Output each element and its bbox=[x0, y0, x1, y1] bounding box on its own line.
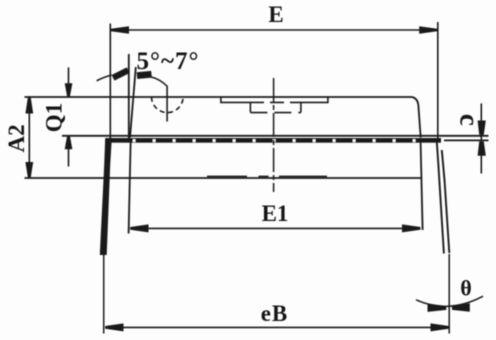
E left extension line bbox=[109, 24, 111, 140]
dimension E left arrow bbox=[111, 26, 129, 34]
body left slant edge (draft angle line) bbox=[130, 67, 136, 138]
eB right extension line bbox=[448, 254, 450, 334]
bottom hidden dashes bbox=[207, 175, 327, 177]
theta arrow right bbox=[452, 303, 470, 312]
theta arrow left bbox=[428, 303, 447, 312]
parting line thin bbox=[62, 135, 489, 137]
index notch dashed semicircle bbox=[152, 97, 184, 113]
angle leader curve bbox=[150, 77, 167, 87]
dimension c upper arrow bbox=[478, 121, 486, 135]
vertical centerline dash-dot bbox=[273, 78, 275, 192]
dimension A2 line bbox=[28, 98, 30, 178]
vertical angle reference line bbox=[128, 54, 130, 138]
tray middle dashed bbox=[250, 101, 301, 103]
dimension c lower arrow bbox=[478, 142, 486, 156]
body lower-right edge / E1 right extension bbox=[421, 143, 423, 230]
dimension Q1 lower line bbox=[68, 149, 70, 167]
eB left extension line bbox=[103, 255, 105, 334]
angle arc left tail bbox=[97, 75, 112, 81]
svg-text:θ: θ bbox=[460, 276, 471, 301]
svg-text:5°~7°: 5°~7° bbox=[137, 48, 200, 75]
recess box right vertical bbox=[300, 102, 302, 112]
E right extension line bbox=[437, 22, 439, 138]
dimension c line bbox=[480, 103, 482, 173]
recess box left vertical bbox=[249, 102, 251, 112]
svg-text:Q1: Q1 bbox=[42, 103, 67, 132]
notch centerline bbox=[166, 86, 168, 122]
right lead inner edge bbox=[437, 139, 444, 254]
body top-right corner bbox=[412, 97, 418, 105]
dimension E1 line bbox=[130, 227, 420, 229]
recess box bottom dashed bbox=[250, 112, 301, 114]
dimension A2 top arrow bbox=[25, 97, 33, 113]
dimension Q1 lower arrow bbox=[65, 136, 73, 149]
dimension E right arrow bbox=[419, 26, 437, 34]
c lower extension line bbox=[444, 139, 489, 141]
left lead bbox=[100, 138, 112, 255]
dimension E1 left arrow bbox=[130, 224, 148, 232]
svg-text:E: E bbox=[268, 2, 283, 27]
top tray step left bbox=[221, 97, 250, 102]
svg-text:A2: A2 bbox=[4, 124, 29, 152]
dimension eB left arrow bbox=[105, 323, 123, 331]
svg-text:eB: eB bbox=[261, 301, 289, 326]
theta angle arc bbox=[416, 296, 483, 306]
right lead outer edge bbox=[442, 150, 450, 253]
body lower-left edge / E1 left extension bbox=[129, 143, 131, 234]
top tray step right bbox=[301, 97, 328, 102]
dimension Q1 upper line bbox=[68, 67, 70, 84]
dimension eB line bbox=[105, 326, 449, 328]
svg-text:E1: E1 bbox=[262, 201, 289, 226]
dimension E line bbox=[111, 29, 438, 31]
dimension E1 right arrow bbox=[402, 224, 420, 232]
svg-text:c: c bbox=[455, 114, 485, 126]
angle arrow A bbox=[113, 70, 128, 78]
dimension Q1 upper arrow bbox=[65, 83, 73, 96]
package body top line bbox=[25, 96, 413, 98]
seating plane thick band bbox=[108, 138, 441, 143]
dimension eB right arrow bbox=[431, 323, 449, 331]
dimension A2 bottom arrow bbox=[25, 162, 33, 178]
body bottom line bbox=[25, 177, 421, 179]
angle arrow B bbox=[137, 74, 152, 75]
body right edge upper bbox=[418, 105, 420, 138]
